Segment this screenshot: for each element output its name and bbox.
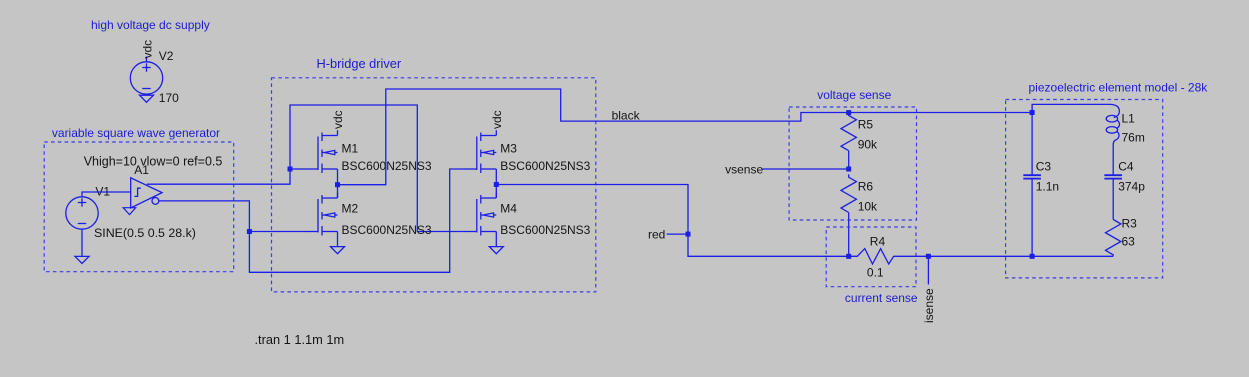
capacitor C4 — [1104, 175, 1122, 178]
nmos transistor M1 — [304, 130, 338, 184]
svg-text:R4: R4 — [870, 234, 886, 248]
svg-text:V2: V2 — [159, 49, 174, 63]
svg-text:M1: M1 — [342, 141, 359, 155]
svg-text:1.1n: 1.1n — [1036, 179, 1059, 193]
wire V1 top to A1 input — [82, 192, 131, 197]
junction R6 bottom / R4 left — [846, 254, 851, 259]
wire C4 to R3 — [1112, 179, 1114, 220]
resistor R6 — [841, 174, 856, 256]
wire vsense — [762, 168, 848, 170]
wire black to L1 and C3 — [1032, 104, 1110, 112]
junction M1 source / M2 drain — [335, 182, 340, 187]
svg-text:L1: L1 — [1122, 112, 1136, 126]
ground (V1) — [75, 256, 89, 263]
svg-text:C3: C3 — [1036, 159, 1052, 173]
resistor R3 — [1106, 220, 1121, 257]
svg-text:BSC600N25NS3: BSC600N25NS3 — [500, 159, 590, 173]
wire M3/M4 node to M4 drain — [495, 185, 497, 199]
wire Q node to M1 gate — [290, 168, 304, 170]
svg-text:C4: C4 — [1118, 159, 1134, 173]
nmos transistor M2 — [304, 193, 338, 247]
box: current sense — [826, 227, 916, 287]
svg-text:vdc: vdc — [140, 40, 154, 59]
junction red rail / C3 bottom — [1030, 254, 1035, 259]
svg-text:0.1: 0.1 — [867, 266, 884, 280]
wire isense stub — [927, 256, 929, 284]
svg-text:10k: 10k — [858, 199, 878, 213]
svg-text:M4: M4 — [500, 202, 517, 216]
wire L1 to C4 — [1112, 146, 1114, 175]
wire C3 bottom — [1031, 179, 1033, 256]
resistor R5 — [841, 113, 856, 169]
junction Q / M1 gate — [288, 167, 293, 172]
svg-text:R5: R5 — [858, 118, 874, 132]
svg-text:vdc: vdc — [490, 110, 504, 129]
svg-text:374p: 374p — [1118, 179, 1145, 193]
junction R4 right / isense — [926, 254, 931, 259]
svg-text:BSC600N25NS3: BSC600N25NS3 — [500, 223, 590, 237]
svg-text:M2: M2 — [342, 202, 359, 216]
svg-text:Vhigh=10 vlow=0 ref=0.5: Vhigh=10 vlow=0 ref=0.5 — [84, 155, 223, 169]
svg-text:current sense: current sense — [845, 291, 918, 305]
schmitt comparator A1 — [131, 178, 162, 208]
wire red label stub — [667, 233, 688, 235]
wire A1 output Q to M1 and M4 gates — [147, 105, 463, 232]
box: variable square wave generator — [44, 142, 234, 272]
svg-text:high voltage dc supply: high voltage dc supply — [91, 18, 210, 32]
junction Qbar / M2 gate — [247, 229, 252, 234]
box: piezoelectric element model — [1006, 100, 1163, 278]
svg-text:variable square wave generator: variable square wave generator — [52, 126, 220, 140]
ground (M2) — [331, 247, 345, 254]
svg-text:black: black — [612, 108, 641, 122]
wire V1 bottom to ground — [81, 229, 83, 256]
svg-text:voltage sense: voltage sense — [817, 88, 891, 102]
wire Qbar node to M2 gate — [249, 231, 304, 233]
inductor L1 — [1106, 104, 1119, 146]
voltage source V2 — [130, 57, 162, 95]
junction black / C3 top — [1030, 110, 1035, 115]
junction M3 source / M4 drain — [494, 182, 499, 187]
wire red rail right: isense junction to C3/R3 bottom — [928, 255, 1113, 257]
svg-text:76m: 76m — [1122, 131, 1145, 145]
wire net black: M1/M2 midpoint to voltage sense and piezo — [338, 89, 1033, 185]
nmos transistor M3 — [463, 130, 497, 184]
svg-text:isense: isense — [922, 288, 936, 323]
box: voltage sense — [789, 107, 916, 220]
svg-text:170: 170 — [159, 91, 179, 105]
svg-text:red: red — [648, 228, 665, 242]
capacitor C3 — [1023, 175, 1041, 178]
wire net red: M3/M4 midpoint to current sense — [496, 185, 848, 257]
svg-text:H-bridge driver: H-bridge driver — [317, 56, 402, 71]
junction red label / wire — [686, 232, 691, 237]
wire C3 top — [1031, 113, 1033, 175]
svg-text:.tran 1 1.1m 1m: .tran 1 1.1m 1m — [255, 332, 345, 347]
ground (V2) — [140, 95, 154, 102]
nmos transistor M4 — [463, 193, 497, 247]
junction vsense / R5 / R6 — [846, 167, 851, 172]
wire A1 output Qbar to M2 and M3 gates — [159, 169, 463, 272]
junction black / R5 top — [846, 110, 851, 115]
resistor R4 — [849, 249, 929, 264]
svg-text:vsense: vsense — [725, 163, 763, 177]
svg-text:SINE(0.5 0.5 28.k): SINE(0.5 0.5 28.k) — [94, 226, 196, 240]
svg-text:R3: R3 — [1122, 217, 1138, 231]
svg-text:M3: M3 — [500, 141, 517, 155]
ground (A1) — [123, 208, 136, 215]
svg-text:90k: 90k — [858, 138, 878, 152]
svg-text:R6: R6 — [858, 179, 874, 193]
svg-text:piezoelectric element model -: piezoelectric element model - 28k — [1029, 81, 1209, 95]
ground (M4) — [489, 247, 503, 254]
voltage source V1 — [66, 197, 98, 229]
svg-text:BSC600N25NS3: BSC600N25NS3 — [342, 223, 432, 237]
svg-text:BSC600N25NS3: BSC600N25NS3 — [342, 159, 432, 173]
box: H-bridge driver — [272, 78, 596, 292]
svg-text:vdc: vdc — [331, 110, 345, 129]
wire M1/M2 node to M2 drain — [337, 185, 339, 198]
svg-text:63: 63 — [1122, 234, 1136, 248]
